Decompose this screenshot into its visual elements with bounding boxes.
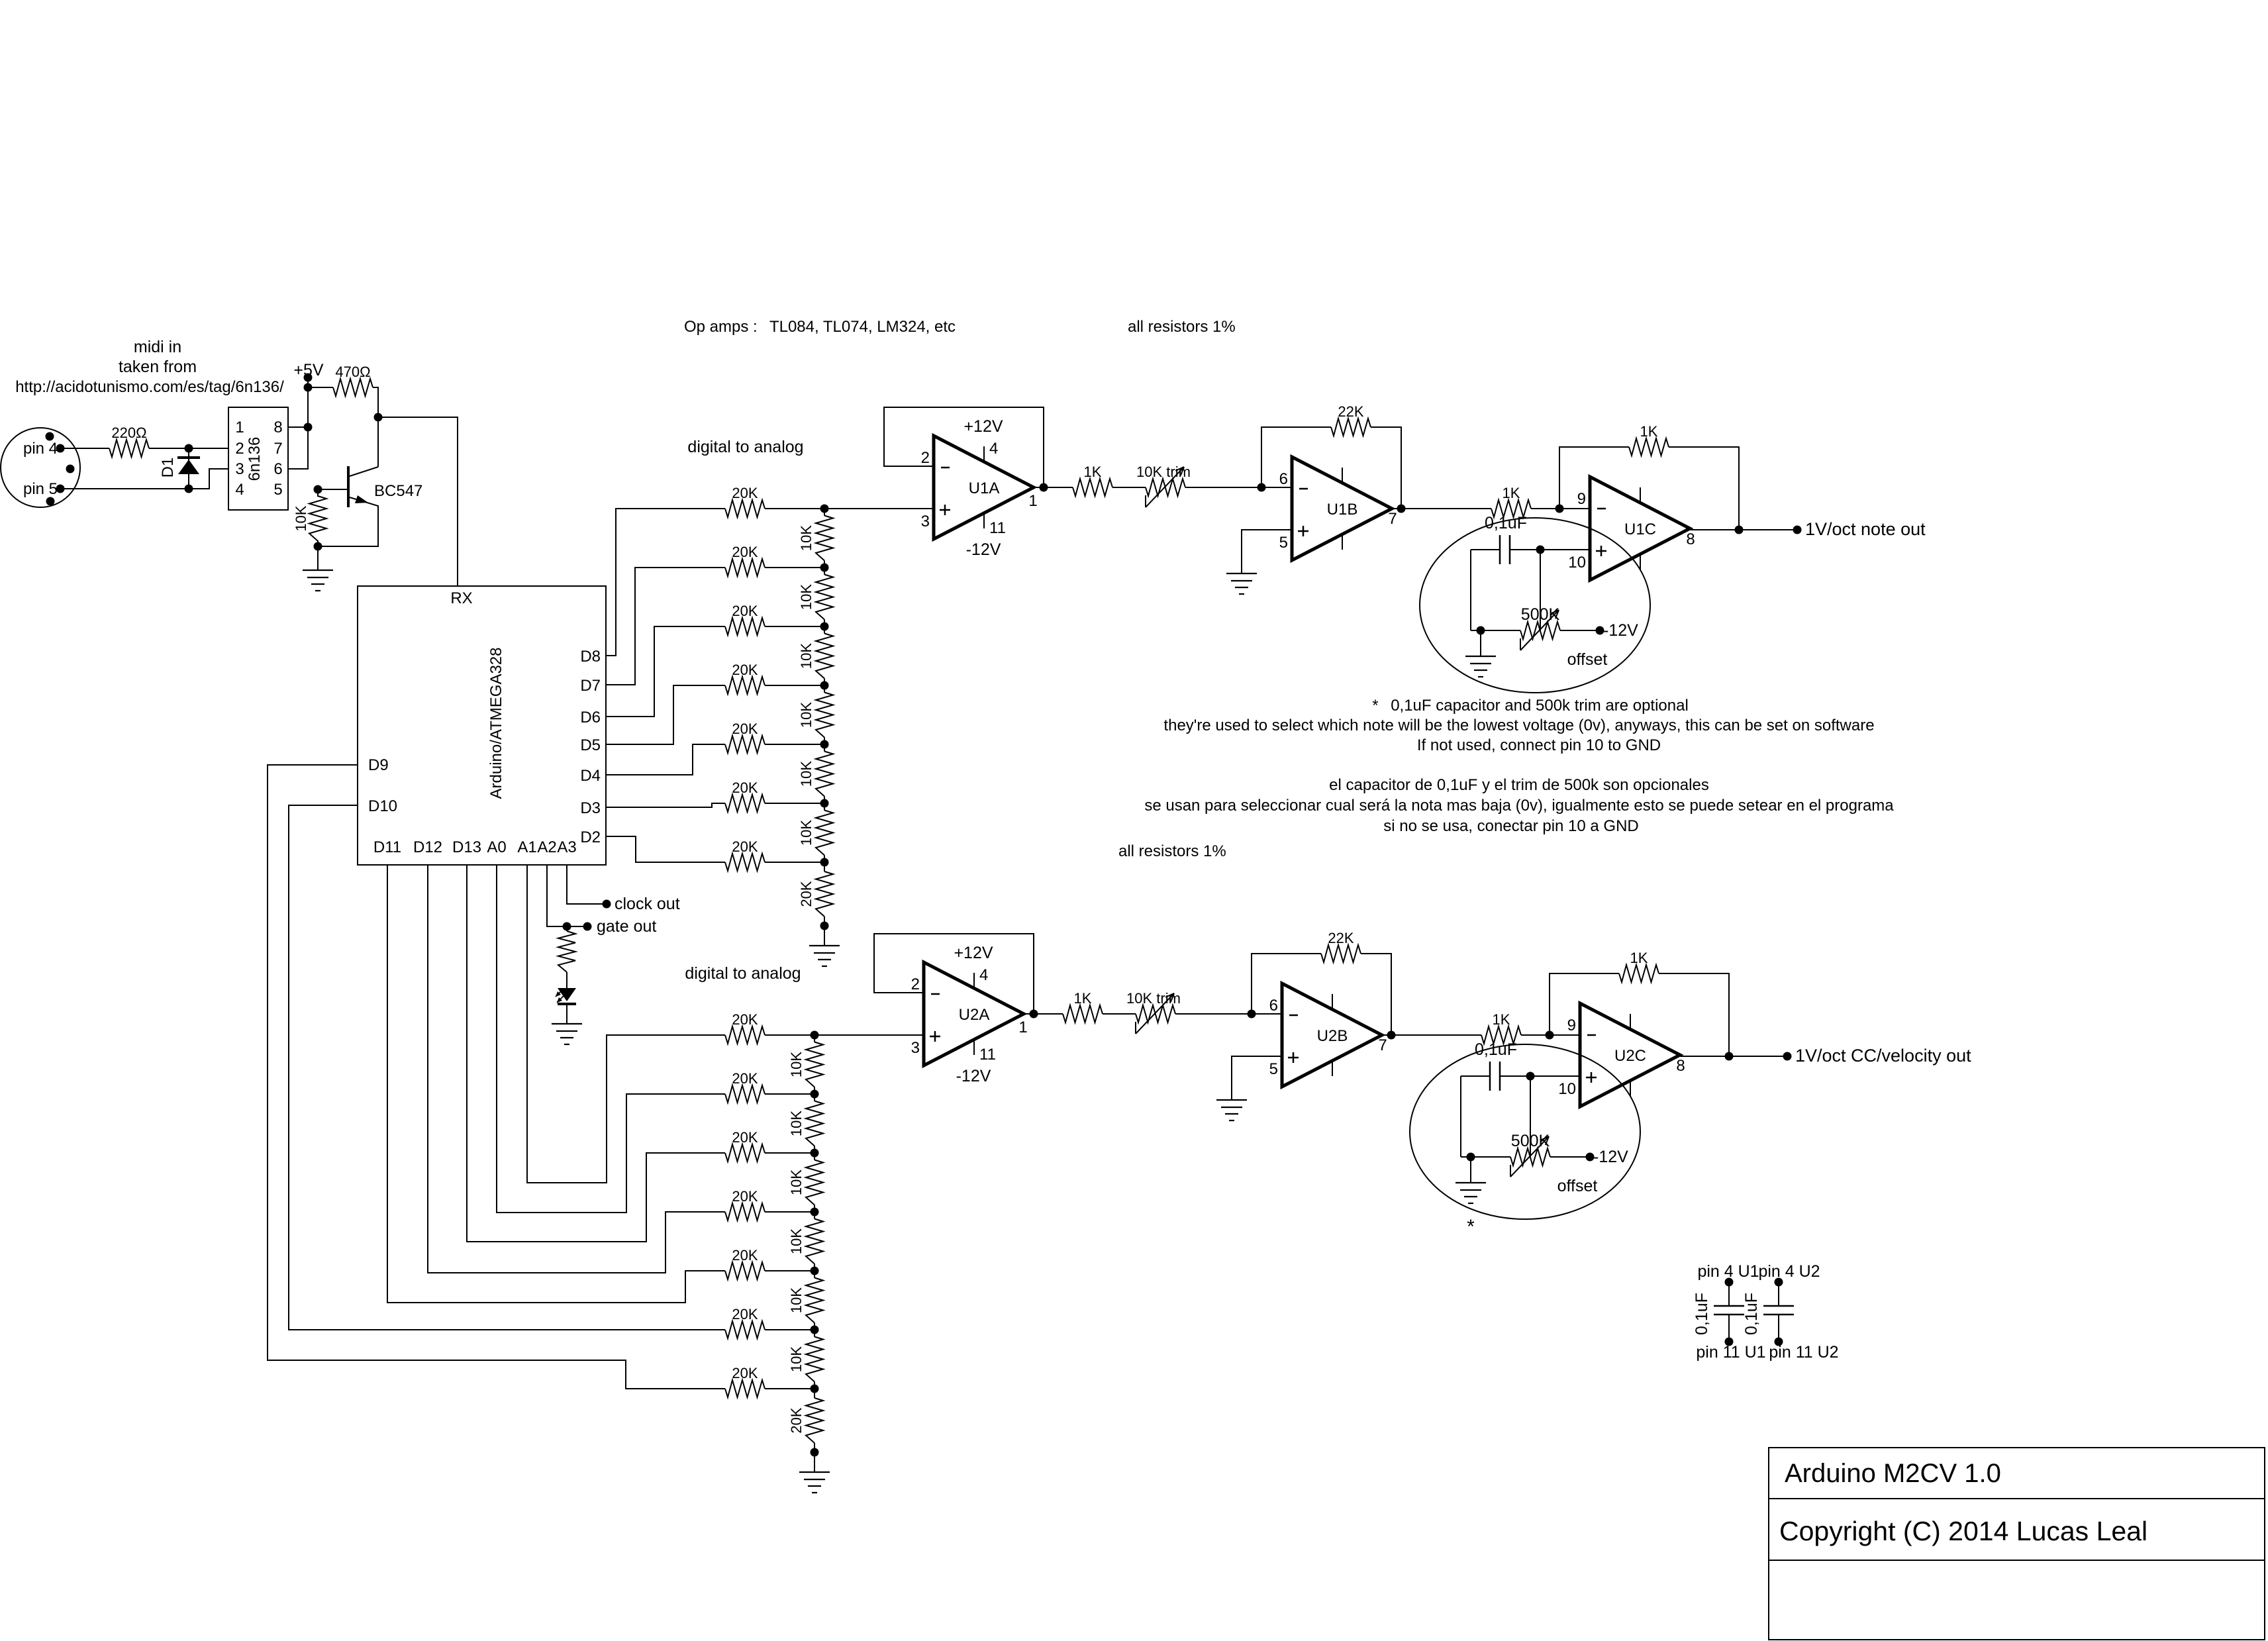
svg-text:3: 3 — [921, 513, 930, 530]
svg-text:0,1uF: 0,1uF — [1742, 1293, 1761, 1335]
svg-text:1: 1 — [1028, 492, 1037, 510]
svg-text:A2: A2 — [537, 838, 556, 856]
svg-text:offset: offset — [1557, 1177, 1598, 1195]
svg-text:A1: A1 — [517, 838, 536, 856]
svg-text:D6: D6 — [580, 709, 601, 726]
svg-text:D8: D8 — [580, 648, 601, 666]
svg-text:10K: 10K — [788, 1228, 805, 1254]
svg-text:20K: 20K — [732, 603, 758, 619]
svg-text:20K: 20K — [732, 1129, 758, 1146]
svg-text:1: 1 — [1018, 1019, 1027, 1036]
svg-text:9: 9 — [1577, 490, 1586, 508]
svg-text:6: 6 — [1269, 997, 1278, 1015]
svg-text:-12V: -12V — [956, 1067, 991, 1085]
svg-text:20K: 20K — [732, 721, 758, 737]
svg-text:5: 5 — [1279, 534, 1288, 552]
svg-text:8: 8 — [273, 419, 282, 436]
svg-text:1: 1 — [235, 419, 244, 436]
svg-text:U2A: U2A — [959, 1006, 990, 1024]
svg-text:20K: 20K — [798, 881, 814, 907]
svg-text:2: 2 — [911, 975, 920, 993]
svg-text:offset: offset — [1567, 650, 1608, 669]
svg-text:4: 4 — [235, 481, 244, 499]
svg-text:they're used to select which n: they're used to select which note will b… — [1163, 717, 1874, 734]
svg-text:A0: A0 — [487, 838, 506, 856]
svg-text:11: 11 — [979, 1046, 996, 1064]
svg-text:1K: 1K — [1074, 990, 1092, 1007]
svg-text:D11: D11 — [373, 838, 401, 856]
svg-text:10K: 10K — [788, 1346, 805, 1372]
svg-text:20K: 20K — [732, 1247, 758, 1264]
svg-text:all resistors 1%: all resistors 1% — [1128, 318, 1236, 336]
svg-text:clock out: clock out — [615, 895, 680, 913]
svg-text:10K: 10K — [798, 820, 814, 846]
svg-text:20K: 20K — [732, 779, 758, 796]
svg-text:Copyright (C) 2014 Lucas Leal: Copyright (C) 2014 Lucas Leal — [1779, 1516, 2147, 1546]
svg-text:10K: 10K — [798, 584, 814, 610]
svg-text:20K: 20K — [732, 1365, 758, 1381]
svg-text:10K: 10K — [798, 761, 814, 787]
svg-text:-12V: -12V — [966, 540, 1001, 559]
svg-text:*: * — [1467, 1216, 1475, 1238]
svg-text:U2C: U2C — [1614, 1047, 1646, 1065]
svg-text:8: 8 — [1686, 530, 1695, 548]
svg-text:6: 6 — [1279, 470, 1288, 488]
svg-text:20K: 20K — [732, 485, 758, 501]
svg-text:3: 3 — [911, 1039, 920, 1057]
svg-text:+12V: +12V — [963, 417, 1003, 436]
svg-text:si no se usa, conectar pin 10: si no se usa, conectar pin 10 a GND — [1383, 817, 1639, 835]
svg-text:470Ω: 470Ω — [335, 364, 370, 380]
svg-text:5: 5 — [273, 481, 282, 499]
svg-text:D5: D5 — [580, 736, 601, 754]
svg-text:220Ω: 220Ω — [111, 424, 146, 441]
svg-text:pin 11 U1: pin 11 U1 — [1696, 1343, 1765, 1362]
svg-text:pin 11 U2: pin 11 U2 — [1769, 1343, 1838, 1362]
svg-text:7: 7 — [1378, 1036, 1387, 1054]
svg-text:pin 4: pin 4 — [23, 440, 58, 458]
svg-text:7: 7 — [1388, 510, 1397, 528]
svg-text:D10: D10 — [368, 797, 397, 815]
svg-text:D3: D3 — [580, 799, 601, 817]
svg-text:20K: 20K — [732, 1188, 758, 1205]
svg-text:6: 6 — [273, 460, 282, 478]
svg-text:1K: 1K — [1084, 464, 1102, 480]
svg-text:10K: 10K — [293, 505, 309, 531]
svg-text:10K: 10K — [788, 1287, 805, 1313]
svg-text:Op amps : TL084, TL074, LM324: Op amps : TL084, TL074, LM324, etc — [684, 318, 956, 336]
svg-text:20K: 20K — [732, 1306, 758, 1322]
svg-text:20K: 20K — [732, 544, 758, 560]
svg-text:* 0,1uF capacitor and 500k tr: * 0,1uF capacitor and 500k trim are opti… — [1372, 697, 1689, 715]
svg-text:D9: D9 — [368, 756, 389, 774]
svg-text:20K: 20K — [732, 1070, 758, 1087]
svg-text:U2B: U2B — [1317, 1027, 1348, 1045]
svg-text:10K: 10K — [798, 702, 814, 728]
svg-text:D4: D4 — [580, 767, 601, 785]
svg-text:9: 9 — [1567, 1017, 1576, 1034]
svg-text:midi in: midi in — [134, 338, 181, 356]
svg-text:22K: 22K — [1338, 403, 1363, 420]
svg-text:7: 7 — [273, 440, 282, 458]
svg-text:20K: 20K — [732, 838, 758, 855]
svg-text:U1A: U1A — [969, 479, 1000, 497]
svg-text:10K: 10K — [788, 1111, 805, 1136]
svg-text:digital to analog: digital to analog — [687, 438, 803, 456]
svg-text:1K: 1K — [1493, 1011, 1510, 1028]
svg-text:D2: D2 — [580, 828, 601, 846]
svg-text:U1B: U1B — [1327, 501, 1358, 519]
svg-text:RX: RX — [450, 589, 472, 607]
svg-text:11: 11 — [989, 519, 1006, 537]
svg-text:Arduino/ATMEGA328: Arduino/ATMEGA328 — [487, 648, 505, 799]
svg-text:0,1uF: 0,1uF — [1485, 514, 1527, 532]
svg-text:A3: A3 — [557, 838, 576, 856]
svg-text:10K: 10K — [788, 1052, 805, 1077]
svg-text:Arduino M2CV 1.0: Arduino M2CV 1.0 — [1785, 1459, 2001, 1488]
svg-text:10K: 10K — [788, 1169, 805, 1195]
svg-text:20K: 20K — [788, 1407, 805, 1433]
svg-text:4: 4 — [989, 440, 998, 458]
svg-text:gate out: gate out — [597, 917, 656, 936]
svg-text:10K: 10K — [798, 525, 814, 551]
svg-text:pin 5: pin 5 — [23, 480, 58, 498]
svg-text:3: 3 — [235, 460, 244, 478]
svg-text:2: 2 — [921, 449, 930, 467]
svg-text:+12V: +12V — [954, 944, 993, 962]
svg-text:pin 4 U2: pin 4 U2 — [1758, 1262, 1820, 1281]
svg-text:D7: D7 — [580, 677, 601, 695]
svg-text:22K: 22K — [1328, 930, 1354, 946]
svg-text:0,1uF: 0,1uF — [1475, 1040, 1517, 1059]
svg-text:-12V: -12V — [1593, 1148, 1628, 1166]
svg-text:1K: 1K — [1630, 950, 1648, 966]
svg-text:0,1uF: 0,1uF — [1693, 1293, 1711, 1335]
svg-text:20K: 20K — [732, 1011, 758, 1028]
svg-text:10K: 10K — [798, 643, 814, 669]
svg-text:1V/oct note out: 1V/oct note out — [1805, 519, 1926, 539]
svg-text:1K: 1K — [1503, 485, 1520, 501]
svg-text:digital to analog: digital to analog — [685, 964, 801, 983]
svg-text:10: 10 — [1558, 1080, 1576, 1098]
svg-text:taken from: taken from — [119, 358, 197, 376]
svg-text:D12: D12 — [413, 838, 442, 856]
svg-text:6n136: 6n136 — [246, 437, 264, 481]
svg-text:If not used, connect pin 10 to: If not used, connect pin 10 to GND — [1417, 736, 1661, 754]
svg-text:-12V: -12V — [1603, 621, 1638, 640]
svg-text:http://acidotunismo.com/es/tag: http://acidotunismo.com/es/tag/6n136/ — [15, 378, 284, 396]
svg-text:4: 4 — [979, 966, 988, 984]
svg-text:8: 8 — [1676, 1057, 1685, 1075]
svg-text:pin 4 U1: pin 4 U1 — [1697, 1262, 1759, 1281]
svg-text:20K: 20K — [732, 662, 758, 678]
svg-text:el capacitor de 0,1uF y el tri: el capacitor de 0,1uF y el trim de 500k … — [1329, 776, 1709, 794]
svg-text:all resistors 1%: all resistors 1% — [1118, 842, 1226, 860]
svg-text:2: 2 — [235, 440, 244, 458]
svg-text:D1: D1 — [159, 458, 177, 478]
svg-text:BC547: BC547 — [374, 482, 422, 500]
svg-text:U1C: U1C — [1624, 521, 1656, 538]
svg-text:1V/oct CC/velocity out: 1V/oct CC/velocity out — [1795, 1046, 1971, 1066]
svg-text:se usan para seleccionar cual: se usan para seleccionar cual será la no… — [1144, 797, 1894, 815]
svg-text:1K: 1K — [1640, 423, 1658, 440]
svg-text:10: 10 — [1568, 554, 1586, 572]
svg-text:5: 5 — [1269, 1060, 1278, 1078]
svg-text:D13: D13 — [452, 838, 481, 856]
